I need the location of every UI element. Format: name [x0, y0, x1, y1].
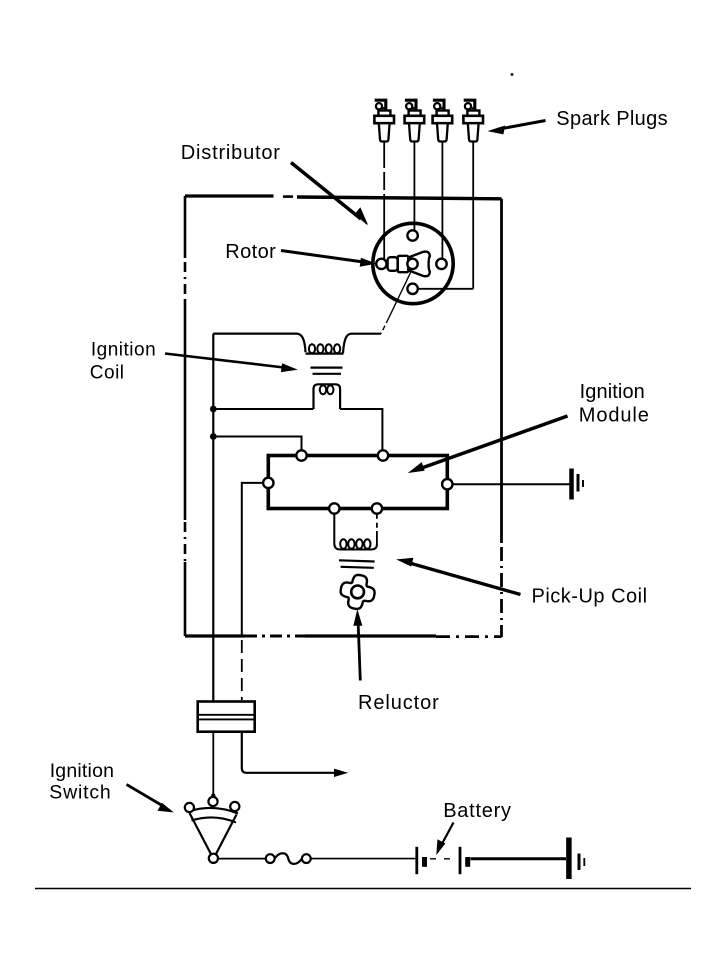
svg-text:Rotor: Rotor: [225, 241, 276, 263]
svg-text:Pick-Up Coil: Pick-Up Coil: [532, 586, 648, 608]
svg-text:Coil: Coil: [90, 363, 125, 384]
svg-text:Ignition: Ignition: [50, 760, 114, 782]
svg-text:Module: Module: [579, 405, 650, 427]
svg-text:Reluctor: Reluctor: [358, 692, 440, 714]
svg-text:Switch: Switch: [49, 781, 111, 803]
svg-text:Distributor: Distributor: [181, 142, 281, 164]
svg-text:Ignition: Ignition: [580, 381, 645, 403]
svg-text:Battery: Battery: [443, 800, 512, 822]
svg-text:Spark Plugs: Spark Plugs: [556, 108, 668, 130]
svg-text:Ignition: Ignition: [91, 339, 156, 360]
